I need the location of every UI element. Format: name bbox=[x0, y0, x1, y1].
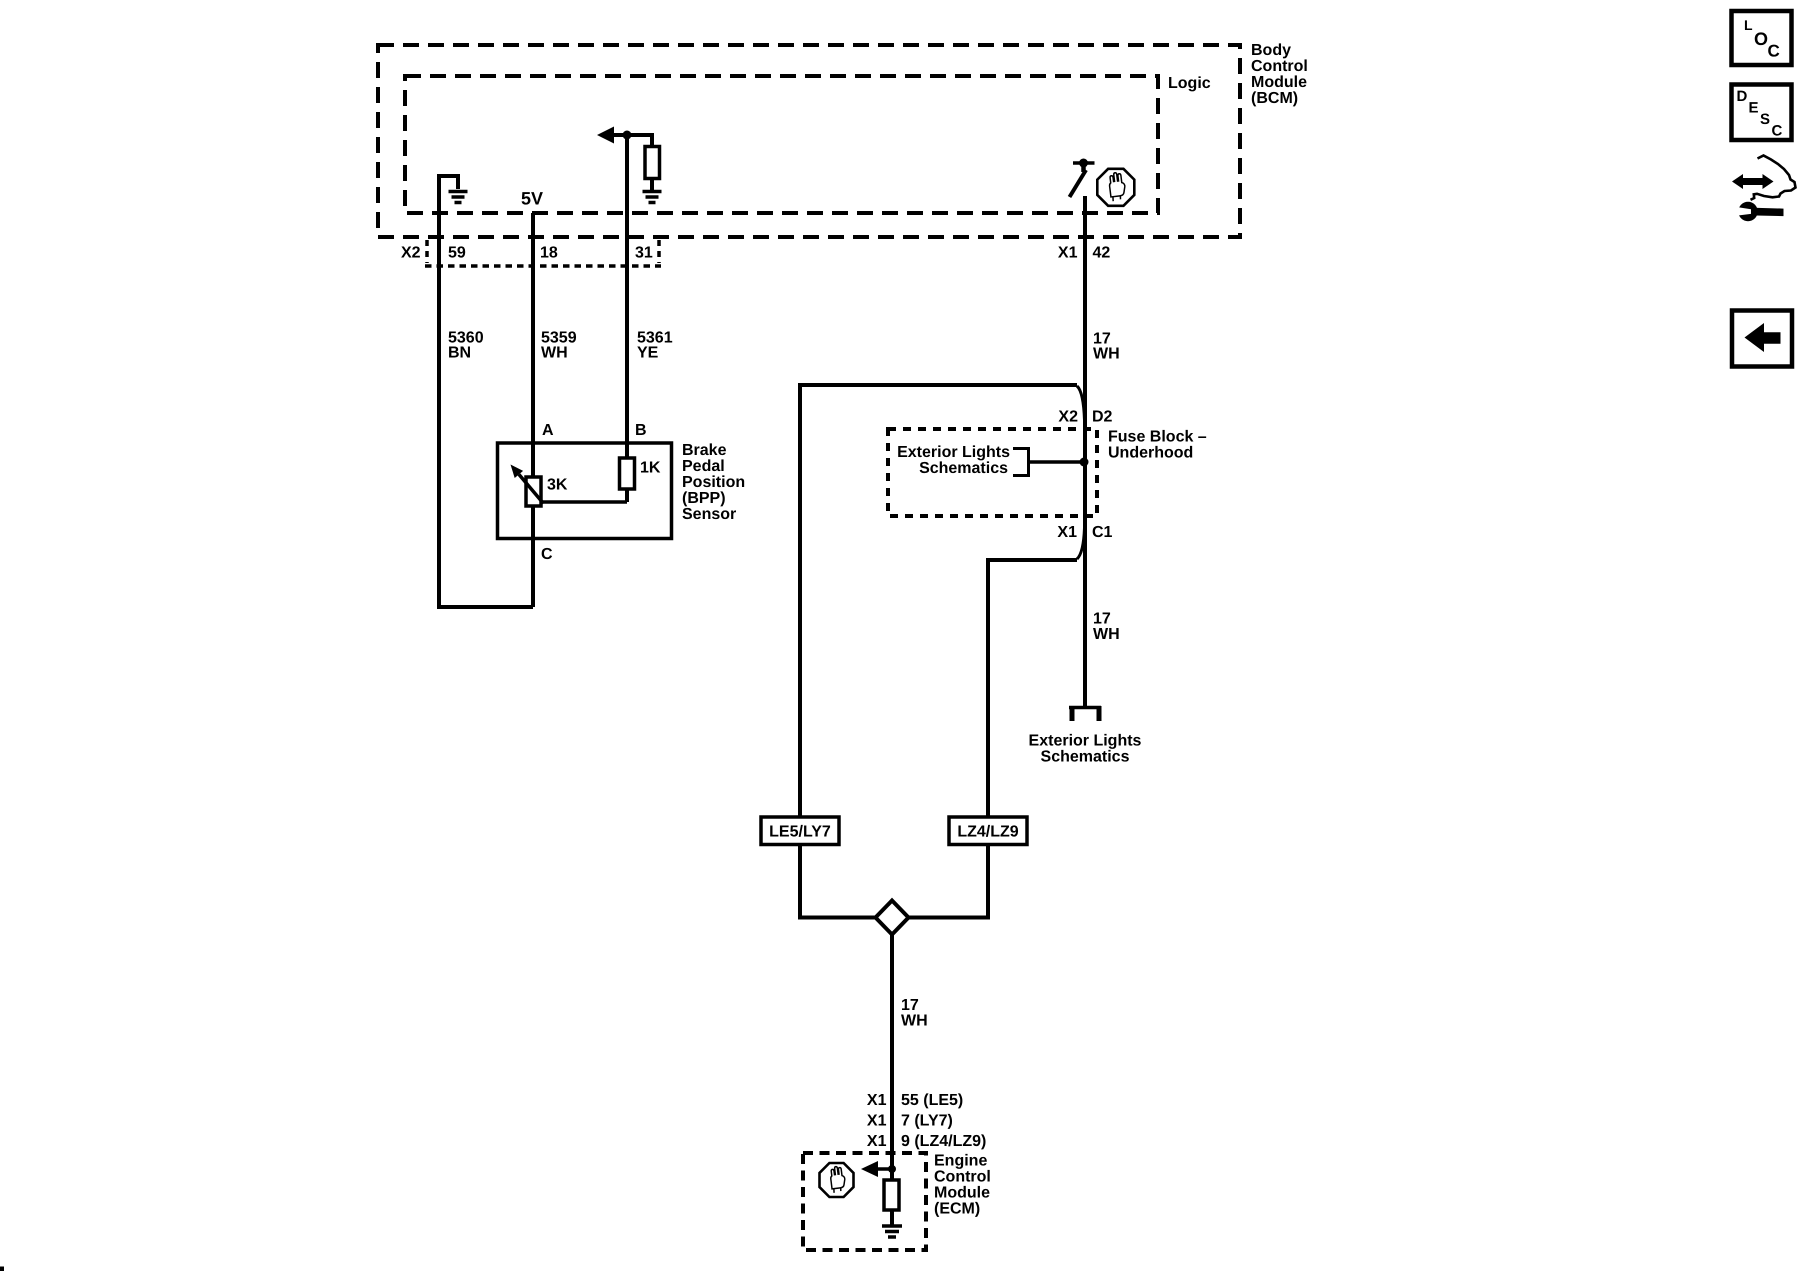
svg-text:31: 31 bbox=[635, 245, 653, 262]
svg-text:9 (LZ4/LZ9): 9 (LZ4/LZ9) bbox=[901, 1133, 986, 1150]
svg-text:Underhood: Underhood bbox=[1108, 445, 1193, 462]
svg-text:A: A bbox=[542, 422, 554, 439]
svg-text:17: 17 bbox=[901, 997, 919, 1014]
svg-text:X2: X2 bbox=[401, 245, 421, 262]
svg-text:Position: Position bbox=[682, 474, 745, 491]
svg-text:X1: X1 bbox=[867, 1092, 887, 1109]
svg-text:Schematics: Schematics bbox=[1041, 749, 1130, 766]
svg-text:C: C bbox=[541, 546, 553, 563]
svg-text:55 (LE5): 55 (LE5) bbox=[901, 1092, 963, 1109]
svg-text:WH: WH bbox=[901, 1013, 928, 1030]
svg-text:X1: X1 bbox=[867, 1113, 887, 1130]
svg-text:Engine: Engine bbox=[934, 1153, 987, 1170]
svg-text:D: D bbox=[1737, 88, 1748, 105]
svg-text:3K: 3K bbox=[547, 477, 568, 494]
svg-text:WH: WH bbox=[541, 345, 568, 362]
svg-text:B: B bbox=[635, 422, 647, 439]
svg-text:BN: BN bbox=[448, 345, 471, 362]
svg-text:Sensor: Sensor bbox=[682, 506, 736, 523]
svg-text:Exterior Lights: Exterior Lights bbox=[897, 444, 1010, 461]
svg-text:YE: YE bbox=[637, 345, 659, 362]
svg-text:X2: X2 bbox=[1058, 409, 1078, 426]
svg-text:7 (LY7): 7 (LY7) bbox=[901, 1113, 953, 1130]
svg-text:(BCM): (BCM) bbox=[1251, 90, 1298, 107]
svg-text:E: E bbox=[1749, 100, 1759, 117]
svg-text:L: L bbox=[1744, 17, 1753, 33]
svg-text:(ECM): (ECM) bbox=[934, 1201, 980, 1218]
svg-text:WH: WH bbox=[1093, 626, 1120, 643]
svg-text:(BPP): (BPP) bbox=[682, 490, 726, 507]
svg-text:Fuse Block –: Fuse Block – bbox=[1108, 429, 1207, 446]
svg-text:Module: Module bbox=[934, 1185, 990, 1202]
svg-text:X1: X1 bbox=[867, 1133, 887, 1150]
svg-text:LZ4/LZ9: LZ4/LZ9 bbox=[957, 824, 1018, 841]
svg-text:Module: Module bbox=[1251, 74, 1307, 91]
svg-text:Logic: Logic bbox=[1168, 75, 1211, 92]
svg-text:17: 17 bbox=[1093, 611, 1111, 628]
svg-text:C: C bbox=[1772, 123, 1783, 140]
svg-text:C1: C1 bbox=[1092, 524, 1113, 541]
svg-text:X1: X1 bbox=[1057, 524, 1077, 541]
svg-text:Pedal: Pedal bbox=[682, 458, 725, 475]
svg-text:Control: Control bbox=[1251, 58, 1308, 75]
svg-text:WH: WH bbox=[1093, 346, 1120, 363]
svg-text:Control: Control bbox=[934, 1169, 991, 1186]
svg-text:59: 59 bbox=[448, 245, 466, 262]
svg-text:Exterior Lights: Exterior Lights bbox=[1029, 733, 1142, 750]
svg-text:18: 18 bbox=[540, 245, 558, 262]
svg-text:1K: 1K bbox=[640, 460, 661, 477]
svg-text:X1: X1 bbox=[1058, 245, 1078, 262]
svg-text:Brake: Brake bbox=[682, 442, 727, 459]
svg-text:LE5/LY7: LE5/LY7 bbox=[769, 824, 831, 841]
svg-text:S: S bbox=[1760, 111, 1770, 128]
svg-text:Body: Body bbox=[1251, 42, 1291, 59]
svg-text:42: 42 bbox=[1093, 245, 1111, 262]
svg-text:5V: 5V bbox=[521, 189, 543, 209]
svg-text:O: O bbox=[1754, 29, 1768, 49]
svg-text:C: C bbox=[1768, 42, 1780, 61]
svg-text:Schematics: Schematics bbox=[919, 460, 1008, 477]
svg-text:D2: D2 bbox=[1092, 409, 1113, 426]
